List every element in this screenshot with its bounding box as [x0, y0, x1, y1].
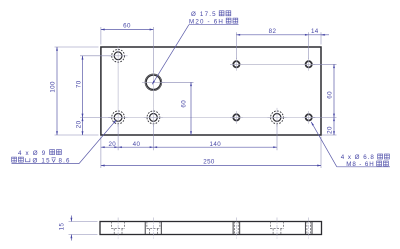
tapped hole M8 top-right (236,80) — [305, 61, 312, 68]
ext right60/20 mid — [313, 116, 337, 118]
svg-text:15: 15 — [58, 223, 65, 231]
hidden lines col 118 (counterbore) — [112, 222, 125, 235]
counterbore hole CB1 top-left (20,90) — [112, 49, 125, 62]
centerline column x=118 connecting CB1-CB2 — [117, 65, 119, 108]
ext M20 mid-right — [162, 81, 194, 83]
dim 82 top — [236, 34, 308, 36]
ext 14 right — [320, 32, 322, 44]
tapped hole M8 bottom-left (154,20) — [233, 114, 240, 121]
ext 70/20 mid — [80, 116, 111, 118]
svg-text:100: 100 — [49, 81, 56, 93]
svg-text:140: 140 — [210, 141, 222, 148]
centerline col 236 — [235, 218, 237, 239]
centermark M8 BR — [302, 111, 315, 124]
centerline bottom hole row — [108, 116, 315, 118]
dim 20 bottom — [101, 146, 118, 148]
svg-text:70: 70 — [75, 80, 82, 88]
ext top60 right / M20 column — [152, 27, 154, 73]
svg-text:60: 60 — [327, 91, 334, 99]
svg-text:Ø 17.5: Ø 17.5 — [191, 11, 217, 18]
dim 70 left — [82, 56, 84, 118]
svg-text:4 x Ø 9: 4 x Ø 9 — [18, 150, 46, 157]
dim 15 side — [70, 216, 72, 241]
tapped hole M8 top-left (154,80) — [233, 61, 240, 68]
svg-text:60: 60 — [180, 100, 187, 108]
leader CB note — [12, 120, 117, 164]
plate outline — [101, 47, 321, 135]
dim 60 top — [101, 29, 153, 31]
tapped hole M20 (60,60) — [145, 74, 162, 91]
ext 70 top — [80, 55, 111, 57]
counterbore hole CB4 bottom-right (200,20) — [271, 111, 284, 124]
dim 250 bottom — [101, 165, 321, 167]
dim 60 right — [333, 64, 335, 117]
hidden lines col 236 (M8) — [233, 222, 240, 235]
extension lines (light) — [55, 27, 337, 168]
ext bottom col 277 — [276, 125, 278, 151]
leader M8 note — [311, 122, 390, 167]
ext 15 top — [69, 221, 98, 223]
svg-text:20: 20 — [108, 141, 116, 148]
ext bottom col 118 — [117, 125, 119, 151]
svg-text:4 x Ø 6.8: 4 x Ø 6.8 — [341, 154, 375, 161]
dim 20 right — [333, 117, 335, 135]
hidden lines col 153 (M20 + counterbore) — [145, 222, 161, 235]
centermark M20 — [142, 71, 165, 94]
svg-text:14: 14 — [311, 28, 319, 35]
ext 15 bottom — [69, 234, 98, 236]
svg-text:M8 - 6H: M8 - 6H — [346, 161, 374, 168]
svg-text:M20 - 6H: M20 - 6H — [189, 18, 224, 25]
centermark M8 TR — [302, 58, 315, 71]
ext top60 left — [100, 27, 102, 45]
centermark CB2 — [109, 108, 128, 127]
centerline col 118 — [117, 218, 119, 239]
tapped hole M8 bottom-right (236,20) — [305, 114, 312, 121]
centermark M8 BL — [230, 111, 243, 124]
svg-text:250: 250 — [203, 158, 215, 165]
ext 250 left — [100, 137, 102, 169]
ext bottom col 153 — [152, 125, 154, 151]
ext right20 bottom — [322, 134, 337, 136]
hidden lines col 309 (M8) — [305, 222, 312, 235]
ext 82 left — [235, 32, 237, 59]
svg-text:82: 82 — [269, 28, 277, 35]
hidden lines col 277 (counterbore) — [270, 222, 283, 235]
ext 250 right — [320, 137, 322, 169]
centermark CB4 — [268, 108, 287, 127]
dim 140 bottom — [153, 146, 277, 148]
svg-text:Ø 15: Ø 15 — [33, 157, 51, 164]
dim 14 top — [309, 34, 329, 36]
centerline col 153 — [152, 218, 154, 239]
ext 82/14 mid — [308, 32, 310, 59]
centermark CB3 — [144, 108, 163, 127]
counterbore hole CB2 bottom-left (20,20) — [112, 111, 125, 124]
dim 100 left — [56, 47, 58, 135]
dim 40 bottom — [118, 146, 153, 148]
counterbore hole CB3 bottom-mid (60,20) — [147, 111, 160, 124]
svg-text:8.6: 8.6 — [59, 157, 71, 164]
leader M20 note — [152, 25, 238, 85]
svg-text:20: 20 — [75, 120, 82, 128]
side view outline — [100, 222, 322, 235]
ext 100 top — [55, 46, 99, 48]
centerline column x=153 connecting M20-CB3 — [152, 94, 154, 108]
centerline M8 top row — [230, 63, 315, 65]
ext 100 bottom — [55, 134, 99, 136]
centerline col 277 — [276, 218, 278, 239]
centermark CB1 — [109, 46, 128, 65]
ext right60 top — [313, 63, 337, 65]
svg-text:20: 20 — [327, 126, 334, 134]
dim 60 mid (M20 to bottom) — [190, 82, 192, 135]
dim 20 left-bottom — [82, 117, 84, 135]
note CB line2: "<cjk><cjk> |_| O 15 v 8.6" — [12, 157, 17, 162]
svg-text:60: 60 — [123, 23, 131, 30]
centerline col 309 — [308, 218, 310, 239]
svg-text:40: 40 — [133, 141, 141, 148]
centermark M8 TL — [230, 58, 243, 71]
